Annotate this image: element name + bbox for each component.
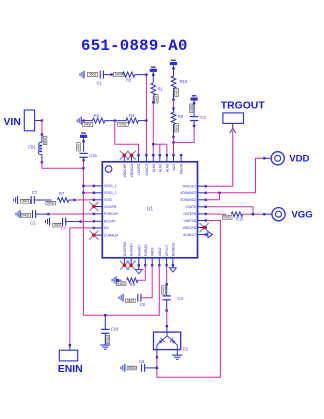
resistor R4 bbox=[92, 118, 105, 123]
svg-text:VDRAIN22: VDRAIN22 bbox=[180, 198, 196, 202]
value 0402 R7 bbox=[46, 201, 56, 205]
svg-text:FB1: FB1 bbox=[28, 144, 36, 149]
svg-text:C2: C2 bbox=[30, 220, 36, 225]
capacitor C4 bbox=[166, 284, 168, 296]
svg-text:0603: 0603 bbox=[189, 105, 193, 112]
svg-text:0402: 0402 bbox=[175, 89, 179, 96]
value 0402 C8 bbox=[126, 299, 136, 303]
resistor R1 bbox=[152, 72, 154, 83]
ferrite bead FB1 bbox=[41, 135, 43, 143]
ground C5 bbox=[124, 364, 126, 372]
svg-text:R4: R4 bbox=[94, 113, 100, 118]
value 0402 R2 bbox=[113, 73, 124, 77]
svg-text:VDD: VDD bbox=[289, 154, 309, 165]
pin VNEGFB bbox=[198, 227, 206, 229]
pin LDOCO bbox=[145, 155, 147, 162]
resistor R7 bbox=[58, 198, 69, 203]
connector TRGOUT bbox=[223, 113, 244, 124]
value 0402 R15 bbox=[222, 215, 232, 219]
value 0402 C4 bbox=[161, 286, 165, 294]
svg-text:VGG: VGG bbox=[291, 210, 312, 221]
svg-text:LDOFB: LDOFB bbox=[137, 163, 141, 175]
ground D1 bbox=[176, 350, 178, 355]
svg-text:ALMTRIG: ALMTRIG bbox=[123, 241, 127, 256]
svg-text:C15: C15 bbox=[89, 153, 97, 158]
pin ALMTRIG bbox=[123, 258, 125, 266]
wire VDD2 to VIN rail bbox=[83, 265, 159, 315]
svg-text:0402: 0402 bbox=[43, 137, 47, 144]
svg-text:CURALM: CURALM bbox=[104, 233, 118, 237]
no-connect VDDALM bbox=[127, 151, 136, 160]
svg-text:0402: 0402 bbox=[223, 215, 231, 219]
value 0603 C1 bbox=[87, 73, 98, 77]
value 0402 R4 bbox=[82, 122, 93, 126]
pin VDRAIN22 bbox=[198, 199, 206, 201]
value 0402 R5 bbox=[175, 124, 179, 132]
power bar C3 bbox=[192, 95, 197, 96]
resistor R16 bbox=[173, 65, 175, 76]
pin ALMSET bbox=[130, 258, 132, 266]
wire R5 to pin AUX bbox=[173, 137, 175, 155]
capacitor C7 bbox=[30, 196, 32, 204]
ground C9 bbox=[49, 218, 51, 226]
svg-text:C8: C8 bbox=[140, 302, 146, 307]
capacitor C18 bbox=[104, 315, 106, 329]
value 0402 C18 bbox=[106, 335, 110, 343]
no-connect ALMTRIG bbox=[120, 261, 129, 270]
wire C8 to pin VREF bbox=[141, 265, 152, 297]
wire D1 return to VNEGIN bbox=[156, 350, 158, 358]
wire R2 to pin LDOCO bbox=[135, 74, 147, 76]
svg-text:DGND16: DGND16 bbox=[171, 243, 175, 257]
value 0402 R16 bbox=[175, 88, 179, 96]
svg-text:U1: U1 bbox=[147, 207, 154, 213]
svg-text:VDD1_1: VDD1_1 bbox=[104, 184, 117, 188]
wire C18 junction bbox=[104, 314, 106, 316]
capacitor C1 bbox=[99, 71, 101, 79]
value 0603 C5 bbox=[127, 366, 137, 370]
value 0402 C2 bbox=[21, 213, 31, 217]
pin 6GVS0 bbox=[180, 155, 182, 162]
svg-text:0402: 0402 bbox=[115, 73, 123, 77]
wire R15 to VGG bbox=[243, 213, 265, 215]
no-connect VDDCHP bbox=[120, 151, 129, 160]
resistor R6 bbox=[127, 278, 138, 283]
svg-text:0402: 0402 bbox=[154, 95, 158, 102]
svg-text:TRGOUT: TRGOUT bbox=[182, 185, 196, 189]
pin AGNDY bbox=[138, 258, 140, 266]
power bar C15 bbox=[81, 132, 86, 133]
pin VREF bbox=[151, 258, 153, 266]
pin VDDCHP bbox=[123, 155, 125, 162]
svg-text:D1: D1 bbox=[183, 346, 189, 351]
svg-text:ALM1: ALM1 bbox=[152, 163, 156, 172]
wire C9 to pin BGCAP bbox=[66, 221, 81, 223]
wire C4 to D1 bbox=[166, 311, 168, 327]
svg-text:0402: 0402 bbox=[127, 299, 135, 303]
svg-text:VDD1_2: VDD1_2 bbox=[104, 191, 117, 195]
svg-text:AGND17: AGND17 bbox=[183, 233, 196, 237]
connector ENIN bbox=[59, 350, 77, 361]
diode D1 bbox=[154, 332, 181, 350]
svg-text:0402: 0402 bbox=[22, 213, 30, 217]
wire VIN vertical rail bbox=[82, 168, 84, 315]
pin AGND17 bbox=[198, 234, 206, 236]
pin VGATE bbox=[198, 206, 206, 208]
svg-text:ALM3: ALM3 bbox=[165, 163, 169, 172]
svg-text:AGNDY: AGNDY bbox=[137, 244, 141, 257]
svg-text:6GVS0: 6GVS0 bbox=[180, 163, 184, 174]
svg-text:0402: 0402 bbox=[106, 336, 110, 343]
wire R4 to R3 bbox=[105, 120, 127, 122]
svg-text:C3: C3 bbox=[200, 115, 206, 120]
value 0603 C3 bbox=[189, 104, 193, 112]
pin TRGOUT bbox=[198, 185, 206, 187]
svg-text:C5: C5 bbox=[139, 359, 145, 364]
capacitor C3 bbox=[193, 101, 195, 117]
pin VDDALM bbox=[130, 155, 132, 162]
svg-text:VDIG: VDIG bbox=[104, 198, 112, 202]
svg-text:ALM2: ALM2 bbox=[158, 163, 162, 172]
pin LDOFB bbox=[138, 155, 140, 162]
wire VDRAIN second pin jog bbox=[206, 193, 220, 200]
svg-text:0402: 0402 bbox=[117, 282, 125, 286]
svg-text:651-0889-A0: 651-0889-A0 bbox=[81, 37, 188, 55]
no-connect VDIGFB bbox=[89, 202, 98, 211]
wire C7 to R7 bbox=[34, 199, 51, 201]
no-connect VNEGFB bbox=[200, 223, 209, 232]
svg-text:LDOCO: LDOCO bbox=[145, 163, 149, 175]
svg-text:CPOUT: CPOUT bbox=[165, 245, 169, 257]
wire VGATE drop bbox=[206, 207, 253, 214]
wire gnd to R4 bbox=[81, 120, 93, 122]
ground DGND16 bbox=[172, 265, 174, 268]
svg-text:TRGOUT: TRGOUT bbox=[221, 100, 266, 111]
pin ALM3 bbox=[166, 155, 168, 162]
wire C1 to R2 bbox=[103, 74, 122, 76]
wire R3 to junction bbox=[138, 120, 146, 122]
pin VNEGIN bbox=[198, 220, 206, 222]
svg-text:R3: R3 bbox=[129, 113, 135, 118]
resistor R2 bbox=[122, 72, 135, 77]
svg-text:GATEFB: GATEFB bbox=[183, 212, 197, 216]
svg-text:VDDALM: VDDALM bbox=[130, 163, 134, 177]
pin PVBIAS bbox=[144, 258, 146, 266]
svg-text:C4: C4 bbox=[177, 296, 183, 301]
svg-text:PORCAP: PORCAP bbox=[104, 212, 119, 216]
svg-text:R5: R5 bbox=[178, 114, 184, 119]
svg-text:0402: 0402 bbox=[175, 124, 179, 131]
svg-text:VDDCHP: VDDCHP bbox=[123, 163, 127, 178]
svg-text:R6: R6 bbox=[130, 282, 136, 287]
resistor R5 bbox=[173, 108, 175, 112]
pin VDD1_2 bbox=[94, 192, 103, 194]
svg-text:C7: C7 bbox=[32, 190, 38, 195]
ground R4 bbox=[80, 117, 82, 125]
wire GATEFB to R15 bbox=[206, 213, 226, 215]
value 0402 R6 bbox=[116, 282, 126, 286]
svg-text:0402: 0402 bbox=[47, 201, 55, 205]
svg-text:ALMSET: ALMSET bbox=[130, 243, 134, 256]
ground C7 bbox=[17, 196, 19, 204]
svg-text:ENIN: ENIN bbox=[58, 364, 83, 375]
capacitor C15 bbox=[83, 138, 85, 152]
pin CURALM bbox=[94, 234, 103, 236]
svg-text:VGATE: VGATE bbox=[185, 205, 197, 209]
wire TRGOUT to pin bbox=[206, 131, 233, 187]
pin ALM1 bbox=[152, 155, 154, 162]
pin VDD2 bbox=[158, 258, 160, 266]
power bar R16 bbox=[171, 60, 176, 61]
svg-text:R7: R7 bbox=[59, 191, 65, 196]
svg-text:0402: 0402 bbox=[119, 122, 127, 126]
capacitor C9 bbox=[62, 218, 64, 226]
pin VDIG bbox=[94, 199, 103, 201]
svg-text:VREF: VREF bbox=[151, 247, 155, 256]
value 0402 R1 bbox=[154, 95, 158, 103]
svg-text:BGCAP: BGCAP bbox=[104, 220, 116, 224]
value 0402 FB1 bbox=[43, 136, 47, 144]
no-connect CURALM bbox=[89, 231, 98, 240]
svg-text:VDRAIN22: VDRAIN22 bbox=[180, 191, 196, 195]
ground R6 bbox=[115, 276, 117, 284]
value 0402 C9 bbox=[53, 223, 63, 227]
pin AUX bbox=[173, 155, 175, 162]
svg-text:C18: C18 bbox=[111, 327, 119, 332]
wire FB1 to VIN rail bbox=[42, 162, 84, 168]
wire R6 to pin PVBIAS bbox=[138, 265, 145, 280]
wire R4 node to pin LDOFB bbox=[115, 121, 139, 156]
pin 1 marker bbox=[105, 166, 112, 173]
test point VGG bbox=[272, 208, 285, 221]
svg-text:VDIGFB: VDIGFB bbox=[104, 205, 117, 209]
capacitor C8 bbox=[137, 294, 139, 302]
wire R1 to top pins bbox=[152, 102, 154, 155]
wire branch pin ALM3 bbox=[166, 144, 168, 155]
wire branch pin ALM2 bbox=[159, 144, 161, 155]
svg-text:VNEGFB: VNEGFB bbox=[183, 226, 197, 230]
pin VDD1_1 bbox=[94, 185, 103, 187]
resistor R15 bbox=[231, 212, 242, 217]
wire C5 to D1 node bbox=[145, 367, 157, 369]
capacitor C2 bbox=[32, 210, 34, 218]
test point VDD bbox=[271, 152, 284, 165]
wire CPOUT to C4 bbox=[166, 265, 168, 284]
svg-text:PVBIAS: PVBIAS bbox=[144, 243, 148, 256]
svg-text:0603: 0603 bbox=[22, 199, 30, 203]
wire gnd to R6 bbox=[116, 279, 121, 281]
pin EN bbox=[94, 227, 103, 229]
wire EN to ENIN bbox=[70, 228, 94, 345]
value 0402 R3 bbox=[118, 122, 129, 126]
wire R16 to R5 bbox=[173, 100, 175, 109]
wire C3 to R5 node bbox=[174, 126, 195, 142]
pin PORCAP bbox=[94, 213, 103, 215]
svg-text:R2: R2 bbox=[126, 78, 132, 83]
resistor R3 bbox=[126, 118, 139, 123]
pin VDRAIN22 bbox=[198, 192, 206, 194]
svg-text:R15: R15 bbox=[236, 217, 244, 222]
arrow TRGOUT bbox=[232, 123, 234, 128]
ground C1 bbox=[83, 71, 85, 79]
ground AGNDY bbox=[138, 265, 140, 269]
value 0603 C7 bbox=[21, 199, 31, 203]
value 0402 C15 bbox=[77, 143, 81, 151]
wire VIN stub bbox=[35, 120, 42, 122]
svg-text:R16: R16 bbox=[180, 79, 188, 84]
svg-text:0402: 0402 bbox=[84, 122, 92, 126]
svg-text:0402: 0402 bbox=[161, 286, 165, 293]
off-page AGND17 bbox=[206, 234, 208, 236]
svg-text:C1: C1 bbox=[97, 80, 103, 85]
svg-text:C9: C9 bbox=[61, 225, 67, 230]
ground C2 bbox=[19, 210, 21, 218]
power bar R1 bbox=[151, 66, 156, 67]
svg-text:0402: 0402 bbox=[77, 143, 81, 150]
pin GATEFB bbox=[198, 213, 206, 215]
wire R7 to pin VDIG bbox=[69, 199, 75, 201]
svg-text:AUX: AUX bbox=[172, 163, 176, 171]
capacitor C5 bbox=[141, 364, 143, 372]
pin VDIGFB bbox=[94, 206, 103, 208]
pin DGND16 bbox=[172, 258, 174, 266]
wire VIN to VDD1_1 bbox=[83, 185, 93, 187]
svg-text:VNEGIN: VNEGIN bbox=[184, 219, 197, 223]
wire VIN to VDD1_2 bbox=[83, 192, 93, 194]
pin CPOUT bbox=[166, 258, 168, 266]
ground C18 bbox=[100, 344, 110, 346]
op-amp U1 body bbox=[102, 162, 197, 258]
svg-text:VIN: VIN bbox=[4, 117, 21, 128]
wire VIN to FB1 bbox=[41, 121, 43, 135]
wire C2 to pin PORCAP bbox=[36, 213, 49, 215]
svg-text:0603: 0603 bbox=[128, 366, 136, 370]
no-connect ALMSET bbox=[127, 261, 136, 270]
ground C8 bbox=[122, 294, 124, 302]
connector VIN bbox=[24, 110, 34, 131]
svg-text:R1: R1 bbox=[158, 86, 164, 91]
pin BGCAP bbox=[94, 220, 103, 222]
svg-text:EN: EN bbox=[104, 226, 109, 230]
pin ALM2 bbox=[159, 155, 161, 162]
wire VDRAIN to VDD bbox=[206, 158, 264, 193]
svg-text:VDD2: VDD2 bbox=[158, 247, 162, 256]
svg-text:0603: 0603 bbox=[89, 73, 97, 77]
